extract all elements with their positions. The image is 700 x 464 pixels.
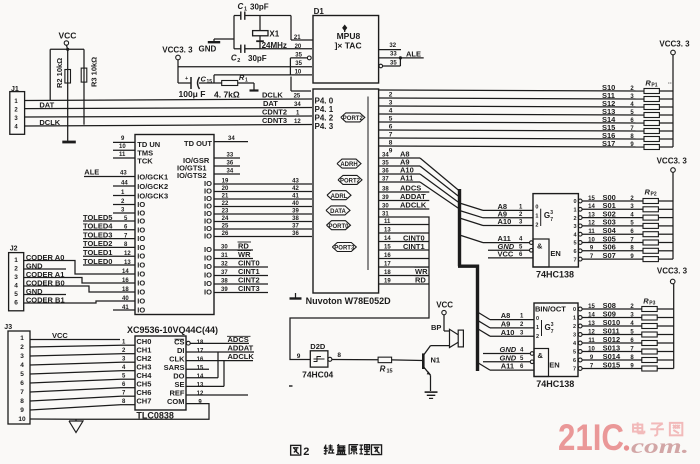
svg-text:]× TAC: ]× TAC (335, 40, 362, 50)
svg-text:37: 37 (292, 224, 299, 230)
svg-text:13: 13 (384, 228, 391, 234)
svg-text:ADRL: ADRL (331, 194, 348, 200)
port arrow PORT0 (327, 221, 351, 230)
svg-text:10: 10 (588, 237, 595, 243)
svg-text:VCC: VCC (436, 301, 453, 310)
outputs chip1 to Rp2 (573, 193, 643, 263)
pin number frame (291, 77, 311, 92)
wire left branch to DAT wire (49, 49, 51, 100)
svg-text:43: 43 (120, 171, 127, 177)
wire SE link to CLK (186, 361, 224, 387)
resistor pack Rp2 (643, 188, 673, 262)
svg-text:S17: S17 (602, 139, 615, 148)
svg-text:J3: J3 (4, 324, 12, 331)
svg-text:11: 11 (119, 152, 126, 158)
wire 74HC04 output to R15 (332, 359, 378, 361)
svg-text:BIN/OCT: BIN/OCT (535, 305, 566, 314)
svg-text:32: 32 (389, 43, 396, 49)
svg-text:34: 34 (382, 153, 389, 159)
svg-text:15: 15 (588, 304, 595, 310)
svg-text:20: 20 (295, 44, 302, 50)
svg-text:38: 38 (382, 187, 389, 193)
resistor R15 (378, 357, 393, 374)
port arrow ADRL (327, 191, 351, 200)
svg-text:IO: IO (137, 270, 145, 279)
inverter D2D 74HC04 (297, 342, 342, 380)
svg-text:R: R (380, 365, 386, 374)
svg-text:9: 9 (297, 353, 301, 360)
svg-text:24: 24 (222, 216, 229, 222)
pin 9 TDI (113, 136, 135, 142)
stub pin 41 bottom left (113, 305, 135, 311)
capacitor C15 100uF (electrolytic) (178, 75, 222, 100)
svg-text:5: 5 (20, 371, 24, 378)
svg-text:PORT2: PORT2 (340, 179, 361, 185)
svg-text:9: 9 (20, 407, 24, 414)
svg-text:18: 18 (122, 287, 129, 293)
svg-text:CINT3: CINT3 (238, 284, 260, 293)
pin 35 (PSEN bubble) (290, 53, 311, 75)
pin 21 (XTAL) (291, 16, 313, 42)
svg-text:ALE: ALE (406, 50, 421, 59)
svg-text:ADCLK: ADCLK (400, 201, 427, 210)
svg-text:2: 2 (573, 216, 576, 222)
wire A9 input chip1 (460, 209, 534, 218)
label DCLK pin 25 (D1 left) (262, 91, 301, 100)
stub CINT0 pin 32 (214, 259, 268, 268)
svg-text:A10: A10 (498, 217, 512, 226)
svg-text:TOLED2: TOLED2 (83, 239, 112, 248)
svg-text:3: 3 (389, 100, 393, 107)
svg-text:1: 1 (536, 325, 539, 331)
pin 32 stub (right) (379, 43, 401, 50)
wire thick address bus A8-A11 (vertical 1) (458, 189, 461, 266)
wire A10 from D1 pin 36 (379, 166, 420, 175)
svg-text:0: 0 (535, 205, 538, 211)
svg-text:EN: EN (549, 361, 559, 370)
svg-text:2: 2 (535, 223, 538, 229)
svg-text:42: 42 (292, 186, 299, 192)
svg-text:VCC3. 3: VCC3. 3 (657, 157, 688, 166)
svg-text:2: 2 (237, 58, 240, 64)
wire A9 diagonal into bus (420, 166, 460, 197)
wire CODER A0 (J2.1 to XC pin 14) (24, 253, 100, 274)
svg-text:74HC138: 74HC138 (536, 270, 574, 280)
svg-text:3: 3 (20, 353, 24, 360)
svg-text:P1: P1 (651, 83, 657, 89)
connector J3 (4, 324, 30, 424)
wire A11 from D1 pin 37 (379, 174, 420, 183)
resistor R3 10k (pull-up) (81, 49, 98, 124)
svg-text:14: 14 (588, 204, 595, 210)
svg-text:S015: S015 (603, 360, 621, 369)
svg-text:74HC04: 74HC04 (302, 370, 333, 380)
svg-text:1: 1 (20, 335, 24, 342)
wire A8 diagonal into bus (420, 158, 460, 191)
svg-text:N1: N1 (431, 356, 441, 365)
resistor R2 10k (pull-up) (55, 49, 71, 141)
svg-text:12: 12 (588, 221, 595, 227)
svg-text:14: 14 (588, 312, 595, 318)
wire VCC (J3.1) (30, 331, 120, 340)
stub WR pin 31 (214, 250, 253, 259)
ground (reset R1) (250, 83, 259, 91)
svg-text:2: 2 (20, 344, 24, 351)
svg-text:36: 36 (292, 231, 299, 237)
svg-text:11: 11 (384, 219, 391, 225)
svg-text:CDNT3: CDNT3 (262, 116, 287, 125)
svg-text:RD: RD (415, 275, 426, 284)
svg-text:30: 30 (382, 204, 389, 210)
svg-text:3: 3 (551, 322, 554, 328)
stub pins 11-19 of D1 (379, 219, 429, 285)
wire ADDAT from DI (186, 344, 254, 353)
mcu D1 (W78E052D) oscillator section box (313, 7, 379, 83)
svg-text:J2: J2 (10, 246, 18, 253)
mcu D1 (W78E052D) main body box (313, 89, 379, 293)
svg-text:COM: COM (167, 397, 185, 406)
connector J1 (10, 86, 25, 134)
svg-text:D2D: D2D (310, 342, 326, 351)
svg-text:43: 43 (292, 179, 299, 185)
caption 图 2 键盘原理图 (291, 444, 382, 458)
wire R15 to N1 base (392, 359, 423, 362)
connector J2 (9, 246, 24, 311)
svg-text:WR: WR (238, 250, 251, 259)
svg-text:30pF: 30pF (250, 3, 269, 12)
stub pins 44,1,2,3 (113, 181, 135, 214)
svg-text:CH7: CH7 (136, 397, 151, 406)
svg-text:TOLED5: TOLED5 (83, 213, 112, 222)
wire thick address bus (vertical 2) (476, 265, 479, 372)
wire RST node to D1 pin 10 (214, 75, 312, 83)
svg-text:DAT: DAT (39, 101, 54, 110)
stub CINT3 pin 39 (214, 284, 268, 293)
svg-text:VCC: VCC (498, 250, 514, 259)
power VCC3.3 (left) (162, 45, 193, 83)
svg-text:P2: P2 (651, 192, 657, 198)
ground (N1 emitter) (425, 392, 438, 398)
decoder 74HC138 #1 box (533, 194, 578, 267)
svg-text:15: 15 (197, 366, 204, 372)
port arrow PORT2 (338, 175, 362, 184)
resistor R1 4.7k (214, 73, 254, 100)
svg-text:IO: IO (137, 252, 145, 261)
capacitor C1 30pF (234, 2, 291, 20)
svg-text:36: 36 (382, 169, 389, 175)
label DAT pin 34 (D1 left) (263, 99, 301, 108)
svg-text:10: 10 (18, 416, 26, 423)
svg-text:12: 12 (588, 329, 595, 335)
svg-text:GND: GND (199, 45, 217, 54)
port arrow ADRH (337, 159, 361, 168)
wire A9 from D1 pin 35 (379, 158, 420, 167)
stub CINT2 pin 38 (214, 276, 268, 285)
svg-text:19: 19 (222, 179, 229, 185)
node junction VCC rail (66, 48, 69, 51)
wire A11 diagonal into bus (420, 182, 460, 209)
svg-text:4. 7kΩ: 4. 7kΩ (214, 90, 240, 100)
svg-text:35: 35 (382, 161, 389, 167)
svg-text:39: 39 (292, 209, 299, 215)
svg-text:DCLK: DCLK (39, 118, 60, 127)
label CDNT3 pin 12 (D1 left) (262, 116, 301, 125)
svg-text:10: 10 (119, 144, 126, 150)
svg-text:VCC3. 3: VCC3. 3 (162, 45, 193, 54)
svg-text:8: 8 (337, 352, 341, 359)
ground GND (crystal) (199, 39, 235, 54)
crystal X1 24MHz (253, 16, 287, 51)
wire SARS stub (186, 368, 209, 370)
svg-text:20: 20 (222, 186, 229, 192)
svg-text:11: 11 (588, 229, 595, 235)
power VCC3.3 (Rp3) (657, 267, 688, 369)
svg-text:C: C (238, 2, 244, 11)
svg-text:15: 15 (207, 79, 213, 85)
capacitor C2 30pF (231, 45, 312, 64)
svg-text:IO/GCK1: IO/GCK1 (137, 173, 168, 182)
wire A10 input chip2 (478, 328, 535, 337)
svg-text:8: 8 (389, 140, 393, 147)
svg-text:2: 2 (536, 334, 539, 340)
pin numbers TLC0838 right (197, 340, 204, 406)
svg-text:DATA: DATA (330, 209, 346, 215)
svg-text:21IC: 21IC (558, 417, 624, 458)
stub CINT1 pin 37 (214, 267, 268, 276)
wire bus XC9536 IO to D1 pins 43-36 (214, 184, 312, 237)
port arrow PORT3 (332, 243, 356, 252)
svg-text:38: 38 (221, 279, 228, 285)
svg-text:··: ·· (668, 81, 672, 87)
svg-text:13: 13 (588, 321, 595, 327)
svg-text:12: 12 (197, 391, 204, 397)
svg-text:G: G (544, 211, 550, 220)
svg-text:3: 3 (14, 274, 18, 281)
svg-text:IO: IO (137, 297, 145, 306)
svg-text:38: 38 (292, 216, 299, 222)
svg-text:VCC: VCC (52, 331, 68, 340)
power VCC3.3 (Rp2) (657, 157, 688, 260)
svg-text:0: 0 (573, 307, 576, 313)
svg-text:G: G (545, 323, 551, 332)
svg-text:37: 37 (221, 270, 228, 276)
svg-text:26: 26 (222, 231, 229, 237)
svg-text:9: 9 (389, 148, 393, 155)
svg-text:IO: IO (204, 232, 212, 241)
svg-text:PORT0: PORT0 (328, 224, 349, 230)
svg-text:com.: com. (631, 436, 689, 458)
svg-text:13: 13 (124, 260, 131, 266)
svg-text:XC9536-10VQ44C(44): XC9536-10VQ44C(44) (127, 325, 218, 335)
svg-text:D1: D1 (314, 7, 325, 16)
svg-text:ADRH: ADRH (340, 162, 357, 168)
svg-text:6: 6 (14, 300, 18, 307)
bubble CS pin 18 (186, 341, 190, 345)
wire ALE into XC9536 pin 43 (84, 168, 135, 177)
pin 35 bubble (right) (379, 58, 400, 68)
svg-text:7: 7 (20, 389, 24, 396)
svg-text:34: 34 (294, 102, 301, 108)
svg-text:14: 14 (384, 236, 391, 242)
svg-text:3: 3 (573, 224, 576, 230)
svg-text:5: 5 (573, 350, 576, 356)
transistor N1 (NPN) (423, 346, 440, 391)
svg-text:IO: IO (137, 279, 145, 288)
svg-text:37: 37 (382, 177, 389, 183)
svg-text:10: 10 (588, 346, 595, 352)
svg-text:TOLED0: TOLED0 (83, 257, 112, 266)
wire ADCLK from CLK (186, 352, 254, 361)
svg-text:41: 41 (122, 305, 129, 311)
wire VCC3.3 to D1 pin 35 (178, 66, 312, 68)
svg-text:22: 22 (222, 201, 229, 207)
svg-text:31: 31 (221, 253, 228, 259)
svg-text:ADCLK: ADCLK (228, 352, 255, 361)
svg-text:ALE: ALE (84, 168, 99, 177)
svg-text:5: 5 (389, 116, 393, 123)
svg-text:7: 7 (389, 132, 393, 139)
svg-text:TCK: TCK (137, 157, 153, 166)
wires J3 pins 2-9 to TLC0838 CH0-CH7 (30, 345, 135, 410)
wire DCLK/DAT/CDNT nets J1 to D1 P4.0-P4.3 (25, 99, 312, 126)
svg-text:3: 3 (573, 333, 576, 339)
svg-text:12: 12 (124, 251, 131, 257)
scan artifact dash (289, 385, 293, 387)
svg-text:14: 14 (197, 374, 204, 380)
svg-text:7: 7 (573, 367, 576, 373)
wire VCC input chip1 (488, 250, 533, 259)
svg-text:11: 11 (588, 338, 595, 344)
svg-text:10: 10 (295, 70, 302, 76)
svg-text:2: 2 (389, 92, 393, 99)
wire A8 input chip2 (478, 311, 535, 320)
wire keyboard row bus D1 to Rp1 (8 lines) (379, 90, 644, 147)
wire A10 diagonal into bus (420, 174, 460, 203)
svg-text:19: 19 (384, 279, 391, 285)
wire GND input chip2 pin4 (bubble) (483, 345, 534, 355)
svg-text:21: 21 (222, 194, 229, 200)
svg-text:IO/GTS2: IO/GTS2 (177, 171, 207, 180)
stub pin 34 TD OUT (214, 136, 248, 142)
svg-text:5: 5 (573, 241, 576, 247)
wire GND input chip1 (bubble) (488, 242, 533, 252)
stub pin 36 IO/GTS1 (177, 161, 240, 173)
labels IO/GCK inside (137, 173, 168, 201)
wire J3.10 to ground node (30, 418, 76, 420)
wire GND (J2.2) (24, 261, 66, 270)
wire A8 from D1 pin 34 (379, 150, 420, 159)
wire A8 input chip1 (460, 202, 534, 211)
label CDNT2 pin 1 (D1 left) (262, 108, 300, 117)
svg-text:TOLED1: TOLED1 (83, 248, 112, 257)
resistor pack Rp1 (602, 79, 673, 150)
svg-text:TOLED4: TOLED4 (83, 222, 113, 231)
svg-text:7: 7 (550, 217, 553, 223)
svg-text:6: 6 (20, 380, 24, 387)
svg-text:15: 15 (588, 196, 595, 202)
decoder 74HC138 #2 box (534, 303, 578, 377)
svg-text:74HC138: 74HC138 (536, 379, 574, 389)
svg-text:6: 6 (573, 249, 576, 255)
svg-text:BP: BP (431, 323, 441, 332)
node junction ALE (399, 56, 402, 59)
wire CODER B0 (J2.4 to XC pin 18) (24, 278, 100, 292)
port arrow PORT2 (top) (341, 113, 365, 122)
svg-text:4: 4 (389, 108, 393, 115)
wire beeper net from D1 pin 31 to 74HC04 input (290, 212, 429, 360)
svg-text:25: 25 (222, 224, 229, 230)
svg-text:&: & (537, 242, 543, 251)
svg-text:5: 5 (14, 291, 18, 298)
svg-text:6: 6 (573, 358, 576, 364)
svg-text:0: 0 (536, 316, 539, 322)
wire crystal loop left side (233, 16, 235, 49)
wire VCC rail (50, 48, 84, 50)
svg-text:8: 8 (20, 398, 24, 405)
port arrow DATA (326, 206, 350, 215)
wire ADCS from CS (190, 335, 250, 344)
svg-text:1: 1 (14, 257, 18, 264)
stub pin 33 IO/GSR (183, 153, 240, 166)
svg-text:40: 40 (292, 201, 299, 207)
svg-text:+: + (185, 76, 188, 82)
svg-text:EN: EN (550, 249, 560, 258)
svg-text:IO: IO (137, 288, 145, 297)
svg-text:32: 32 (221, 262, 228, 268)
ground arrow (analog) (69, 419, 83, 432)
wire thick bus elbow (458, 265, 478, 268)
svg-text:TLC0838: TLC0838 (136, 410, 174, 420)
svg-text:7: 7 (573, 257, 576, 263)
labels IO column right inside (204, 179, 212, 297)
svg-text:41: 41 (292, 194, 299, 200)
wire COM loop to ground (76, 404, 209, 420)
svg-text:A11: A11 (400, 174, 413, 183)
svg-text:IO: IO (137, 261, 145, 270)
svg-text:1: 1 (573, 316, 576, 322)
svg-text:2: 2 (303, 446, 309, 458)
svg-text:PORT3: PORT3 (334, 246, 355, 252)
svg-text:16: 16 (384, 253, 391, 259)
svg-text:P4. 3: P4. 3 (315, 122, 334, 131)
svg-text:4: 4 (20, 362, 24, 369)
svg-text:35: 35 (295, 61, 302, 67)
svg-text:R2 10kΩ: R2 10kΩ (55, 58, 64, 88)
svg-text:100μ F: 100μ F (179, 89, 206, 99)
adc TLC0838 box (122, 336, 186, 410)
svg-text:4: 4 (14, 283, 18, 290)
pin numbers D1 2-9 (389, 92, 393, 155)
pin numbers XC9536 19-26 (222, 179, 229, 238)
svg-text:Nuvoton W78E052D: Nuvoton W78E052D (306, 296, 392, 306)
svg-text:44: 44 (121, 181, 128, 187)
svg-text:25: 25 (294, 94, 301, 100)
wires CODER nets into XC9536 (100, 269, 135, 302)
svg-text:IO: IO (137, 243, 145, 252)
ground (below R2) (62, 141, 76, 144)
pin 11 TCK (113, 152, 135, 158)
svg-text:21: 21 (294, 35, 301, 41)
pin numbers D1 43-36 (292, 179, 299, 238)
svg-text:35: 35 (390, 61, 397, 67)
wire A9 input chip2 (478, 320, 535, 329)
outputs chip2 to Rp3 (573, 301, 642, 373)
svg-text:IO: IO (137, 306, 145, 315)
svg-text:18: 18 (384, 270, 391, 276)
svg-text:1: 1 (535, 214, 538, 220)
wire A11 input chip2 pin6 (478, 362, 535, 371)
svg-text:39: 39 (382, 195, 389, 201)
